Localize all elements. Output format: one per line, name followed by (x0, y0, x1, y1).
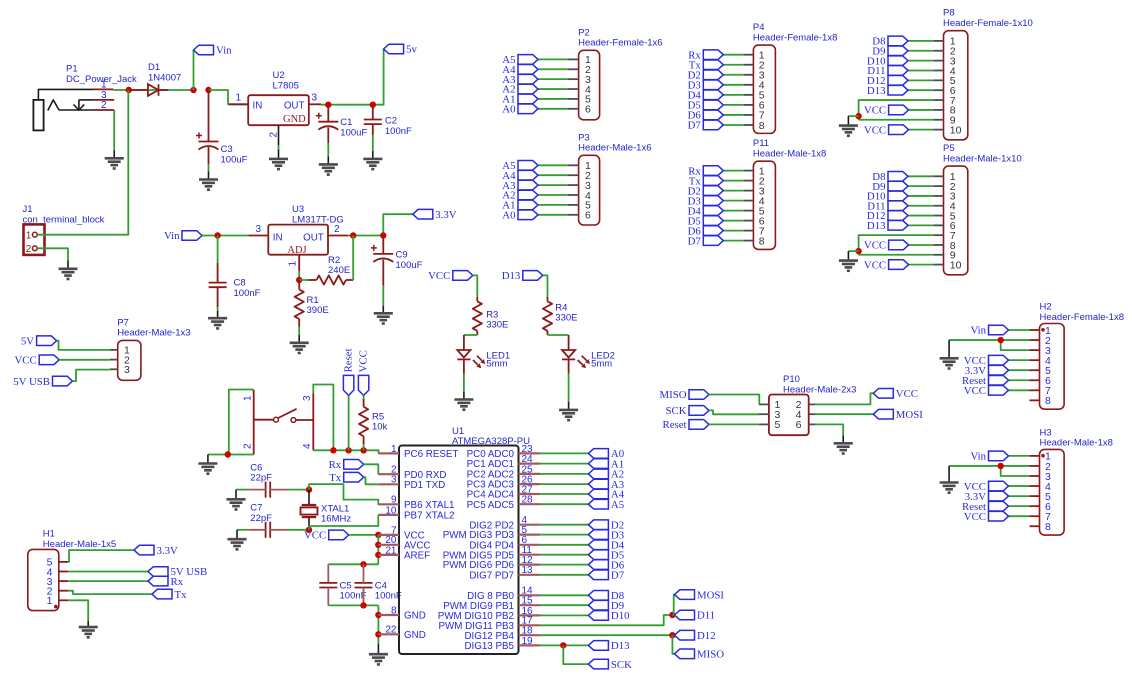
net flag D6 at U1 (588, 559, 624, 571)
ground at H1 (79, 627, 98, 637)
ground at H3 (940, 483, 959, 493)
pin U3.3 stub (249, 235, 269, 237)
svg-text:19: 19 (522, 636, 534, 647)
net flag D2 at P4 (688, 69, 724, 81)
ground under P1 (105, 158, 124, 168)
junction Vin / C8 (214, 232, 220, 238)
wire VCC to P5.8 (909, 244, 934, 246)
svg-text:Header-Female-1x8: Header-Female-1x8 (1040, 312, 1124, 323)
svg-text:10k: 10k (372, 422, 388, 433)
net flag VCC at P5.8 (864, 240, 909, 252)
wire C3 top (208, 90, 210, 142)
op-amp U2 L7805 regulator (235, 70, 320, 145)
pin U2.1 IN stub (229, 103, 248, 105)
svg-text:2: 2 (243, 443, 254, 449)
wire U1 to D8 (540, 594, 588, 596)
wire Reset to H3 (1009, 505, 1030, 507)
wire C1 bottom (327, 128, 329, 144)
junction VIN / J1 (126, 87, 132, 93)
svg-text:MISO: MISO (697, 649, 724, 661)
svg-text:D7: D7 (688, 235, 702, 247)
wire A3 to P3 (538, 184, 568, 186)
svg-text:1: 1 (26, 231, 32, 242)
net flag A0 at P2 (502, 104, 538, 116)
net flag D13 at LED2 (502, 270, 543, 282)
wire RESET rail (313, 450, 378, 453)
svg-text:AREF: AREF (404, 551, 430, 562)
net flag D10 at U1 (588, 610, 629, 622)
connector H1 Header-Male-1x5 (28, 529, 116, 611)
wire VCC to U1.7 (349, 534, 379, 536)
IC U1 ATMEGA328P-PU (399, 426, 530, 654)
net flag 3.3V at H1 (134, 545, 178, 557)
wire D13 to P5 (908, 224, 934, 226)
svg-text:U3: U3 (292, 204, 304, 215)
wire C9 bottom (382, 260, 384, 286)
svg-text:Header-Male-1x8: Header-Male-1x8 (753, 149, 826, 160)
svg-text:1: 1 (235, 93, 241, 104)
wire P10.6 to ground (815, 424, 843, 435)
net flag A2 at P2 (502, 84, 538, 96)
junction XTAL2 / C7 (306, 527, 312, 533)
pin C7 right stub (270, 529, 289, 531)
svg-text:SCK: SCK (665, 405, 686, 417)
capacitor C6 (265, 482, 267, 498)
net flag D12 at P8 (867, 75, 908, 87)
svg-text:L7805: L7805 (273, 81, 299, 92)
net flag Reset at P10 (663, 419, 710, 431)
junction ground tap (855, 113, 861, 119)
wire D4 to P4 (723, 94, 744, 96)
svg-text:Header-Male-1x3: Header-Male-1x3 (117, 328, 190, 339)
net flag VCC at P8.8 (864, 105, 909, 117)
net flag D13 at U1 (588, 640, 629, 652)
junction OUT / C9 (380, 232, 386, 238)
net flag Vin top (194, 45, 233, 57)
net flag D11 at P8 (867, 65, 908, 77)
svg-text:3: 3 (391, 475, 397, 486)
wire U1 to D2 (540, 524, 588, 526)
net flag VCC at H3 (964, 481, 1009, 493)
svg-text:Header-Female-1x10: Header-Female-1x10 (943, 18, 1033, 29)
net flag VCC at H3 (964, 511, 1009, 523)
svg-text:MOSI: MOSI (697, 589, 724, 601)
resistor R1 (295, 290, 304, 319)
wire A4 to P2 (538, 68, 568, 70)
net flag VCC at P5.10 (864, 259, 909, 271)
wire SW pin3 loop (313, 385, 333, 451)
wire H2.3 ground (1001, 340, 1030, 350)
capacitor C3 (199, 141, 219, 143)
svg-text:ADJ: ADJ (287, 245, 306, 256)
svg-text:390E: 390E (307, 305, 329, 316)
net flag Reset at H2 (962, 375, 1009, 387)
LED LED1 (457, 350, 510, 369)
pin U1.9 PB6 XTAL1 (378, 495, 454, 511)
svg-text:100uF: 100uF (396, 260, 423, 271)
switch SW1 reset pushbutton (243, 390, 314, 455)
wire 5V to P7.1 (57, 341, 110, 350)
net flag D6 at P11 (688, 225, 724, 237)
pin LED1 bottom stub (463, 359, 465, 373)
net flag Rx at P11 (688, 165, 723, 177)
wire Rx to P4 (723, 54, 744, 56)
ground under C1 (319, 164, 338, 174)
pin U1.26 PC3 ADC3 (467, 475, 540, 491)
svg-text:A5: A5 (611, 499, 624, 511)
wire GND rail (377, 605, 379, 643)
svg-text:1N4007: 1N4007 (148, 72, 181, 83)
wire D8 to P8 (908, 40, 934, 42)
pin U3.2 stub (328, 235, 348, 237)
wire C8 bottom (217, 287, 219, 307)
svg-text:10: 10 (950, 124, 962, 136)
wire Reset flag drop (348, 395, 350, 450)
ground at P8 (839, 126, 858, 136)
wire U1 to A4 (540, 493, 588, 495)
wire H1.1 to ground (68, 600, 88, 621)
net flag D12 at P5 (867, 210, 908, 222)
net flag D5 at P4 (688, 100, 724, 112)
resistor R2 (317, 275, 346, 284)
svg-text:1: 1 (288, 261, 299, 267)
wire A0 to P2 (538, 108, 568, 110)
wire Rx to PD0 (364, 464, 379, 474)
svg-text:A0: A0 (502, 210, 515, 222)
wire J1 pin1 to VIN (38, 90, 128, 235)
pin R3 bottom stub (476, 331, 478, 335)
wire D6 to P11 (723, 230, 744, 232)
net flag D7 at U1 (588, 570, 624, 582)
svg-text:MISO: MISO (660, 389, 687, 401)
wire pin9 ground (859, 119, 934, 121)
wire U1 to D10 (540, 614, 588, 616)
net flag 3.3V (413, 209, 457, 221)
net flag 5V USB at H1 (148, 566, 207, 578)
wire R3 to LED1 (464, 334, 477, 336)
svg-text:Vin: Vin (970, 325, 986, 337)
pin U1.17 PWM DIG11 PB3 (439, 616, 541, 632)
svg-text:10: 10 (385, 505, 397, 516)
wire D9 to P5 (908, 185, 934, 187)
wire U3 OUT to 3.3V (348, 214, 413, 235)
net flag 3.3V at H3 (965, 491, 1009, 503)
ground under C7 (228, 539, 247, 549)
net flag VCC at H2 (964, 355, 1009, 367)
wire Vin to H2.1 (1009, 329, 1030, 331)
junction ground H2 (998, 337, 1004, 343)
pin LED1 top stub (463, 335, 465, 350)
pin U1.6 DIG4 PD4 (469, 535, 540, 551)
wire R1 to ground (298, 327, 300, 336)
pin U1.19 DIG13 PB5 (464, 636, 540, 652)
net flag A3 at P2 (502, 74, 538, 86)
pin U1.7 VCC (378, 525, 424, 541)
wire D11 to P8 (908, 69, 934, 71)
wire A5 to P2 (538, 58, 568, 60)
net flag D9 at P5 (872, 181, 908, 193)
wire VCC to H2 (1009, 389, 1030, 391)
net flag D11 at U1 (675, 610, 716, 622)
connector H2 Header-Female-1x8 (1030, 302, 1124, 410)
wire C6 to ground (236, 489, 248, 491)
capacitor C8 (209, 282, 227, 284)
net flag A5 at U1 (588, 499, 624, 511)
svg-text:22pF: 22pF (250, 513, 272, 524)
svg-text:VCC: VCC (14, 355, 36, 367)
junction RESET / R5 (360, 447, 366, 453)
wire VCC to H3 (1009, 515, 1030, 517)
wire C1 top (327, 105, 329, 122)
net flag D13 at P8 (867, 85, 908, 97)
net flag Vin at H2 (970, 325, 1008, 337)
junction C4 bottom (360, 602, 366, 608)
wire D2 to P11 (723, 190, 744, 192)
net flag D9 at P8 (872, 45, 908, 57)
pin U3.1 ADJ stub (298, 255, 300, 271)
svg-text:U2: U2 (273, 70, 285, 81)
pin R4 top stub (547, 297, 549, 302)
pin R1 bottom stub (298, 319, 300, 327)
wire ground tap (848, 250, 858, 252)
connector P3 (568, 132, 652, 225)
svg-text:5: 5 (775, 419, 781, 431)
wire PB4 to D12 (540, 634, 672, 636)
svg-text:D13: D13 (502, 270, 521, 282)
svg-text:PC6 RESET: PC6 RESET (404, 449, 458, 460)
svg-text:IN: IN (253, 101, 263, 112)
wire D12 to MISO (672, 635, 674, 654)
net flag D3 at P4 (688, 80, 724, 92)
wire VCC to H2 (1009, 359, 1030, 361)
ground at P5 (839, 261, 858, 271)
net flag Tx at H1 (152, 589, 187, 601)
net flag MOSI at U1 (675, 589, 725, 601)
pin U1.16 PWM DIG10 PB2 (438, 606, 540, 622)
net flag D5 at U1 (588, 549, 624, 561)
wire ADJ (298, 271, 300, 280)
junction U1.8 GND (375, 612, 381, 618)
svg-text:VCC: VCC (864, 240, 886, 252)
wire U1 to D5 (540, 554, 588, 556)
net flag D11 at P5 (867, 200, 908, 212)
svg-text:VCC: VCC (864, 105, 886, 117)
net flag D7 at P11 (688, 235, 724, 247)
wire A2 to P3 (538, 194, 568, 196)
wire PB5 to D13 (540, 644, 588, 646)
net flag D7 at P4 (688, 120, 724, 132)
wire A3 to P2 (538, 78, 568, 80)
wire D7 to P4 (723, 124, 744, 126)
wire A4 to P3 (538, 174, 568, 176)
wire D10 to P8 (908, 60, 934, 62)
net flag D12 at U1 (675, 630, 716, 642)
svg-text:1: 1 (391, 444, 397, 455)
net flag Reset at switch (342, 348, 354, 395)
svg-text:100uF: 100uF (340, 128, 367, 139)
pin R2 right stub (346, 279, 353, 281)
pin U1.13 DIG7 PD7 (469, 565, 540, 581)
svg-text:A0: A0 (502, 104, 515, 116)
junction ADJ node (296, 277, 302, 283)
net flag VCC at R5 (357, 350, 369, 395)
svg-text:VCC: VCC (357, 350, 369, 372)
connector P8 (934, 8, 1033, 140)
svg-text:28: 28 (522, 495, 534, 506)
pin LED2 bottom stub (568, 359, 570, 373)
svg-text:DIG7 PD7: DIG7 PD7 (469, 570, 514, 581)
net flag A2 at P3 (502, 190, 538, 202)
connector P1 DC power jack (33, 64, 137, 131)
ground under C2 (363, 159, 382, 169)
junction VCC U1.21 (375, 552, 381, 558)
junction SW ground (225, 451, 231, 457)
wire VCC to R3 (473, 275, 478, 297)
pin R5 bottom stub (363, 436, 365, 444)
wire C9 top (382, 236, 384, 254)
net flag MOSI at P10 (873, 409, 923, 421)
pin LED2 top stub (568, 335, 570, 350)
pin U1.4 DIG2 PD2 (469, 515, 540, 531)
svg-text:Rx: Rx (329, 459, 342, 471)
wire D9 to P8 (908, 50, 934, 52)
svg-text:VCC: VCC (428, 270, 450, 282)
net flag 5v (384, 44, 418, 56)
svg-text:5mm: 5mm (486, 358, 507, 369)
net flag 3.3V at H2 (965, 365, 1009, 377)
svg-text:PB7 XTAL2: PB7 XTAL2 (404, 511, 454, 522)
svg-text:D10: D10 (611, 610, 630, 622)
svg-text:Tx: Tx (175, 589, 188, 601)
svg-text:5V: 5V (21, 335, 34, 347)
pin U1.21 AREF (378, 545, 430, 561)
svg-text:Reset: Reset (663, 419, 687, 431)
svg-text:8: 8 (1045, 521, 1051, 533)
pin U1.1 PC6 RESET (378, 444, 458, 460)
svg-text:D11: D11 (697, 610, 715, 622)
pin U1.23 PC0 ADC0 (467, 444, 540, 460)
wire VIN to U2 IN (209, 90, 249, 104)
connector P4 (744, 22, 838, 133)
pin U1.25 PC2 ADC2 (467, 464, 540, 480)
svg-text:100nF: 100nF (385, 126, 412, 137)
wire Vin to H3.1 (1009, 455, 1030, 457)
wire Tx to P4 (723, 64, 744, 66)
net flag Rx at H1 (148, 576, 184, 588)
capacitor C4 (355, 582, 373, 584)
net flag D5 at P11 (688, 215, 724, 227)
net flag A1 at P3 (502, 200, 538, 212)
wire XTAL1 to PB6 (309, 484, 378, 504)
svg-text:240E: 240E (328, 265, 350, 276)
net flag D8 at U1 (588, 590, 624, 602)
pin U1.11 PWM DIG5 PD5 (443, 545, 540, 561)
svg-text:6: 6 (796, 419, 802, 431)
junction D12 / MISO (669, 632, 675, 638)
connector P10 Header-Male-2x3 (759, 374, 857, 435)
svg-text:3: 3 (124, 364, 130, 376)
LED LED2 (562, 350, 615, 369)
svg-text:DIG13 PB5: DIG13 PB5 (464, 641, 514, 652)
net flag D10 at P5 (867, 191, 908, 203)
ground at P10 (834, 443, 853, 453)
wire U1 to D9 (540, 604, 588, 606)
svg-text:1: 1 (243, 395, 254, 401)
svg-text:Vin: Vin (216, 45, 232, 57)
net flag A4 at P3 (502, 170, 538, 182)
ground under LED2 (559, 410, 578, 420)
wire A1 to P3 (538, 204, 568, 206)
wire U2 GND to ground (278, 145, 280, 150)
junction VCC U1.20 (375, 542, 381, 548)
svg-text:6: 6 (585, 104, 591, 116)
wire D13 to P8 (908, 89, 934, 91)
wire VCC to R5 (363, 395, 365, 399)
svg-text:16MHz: 16MHz (321, 514, 351, 525)
wire ground tap (848, 115, 858, 117)
svg-text:MOSI: MOSI (896, 409, 923, 421)
svg-text:Header-Female-1x6: Header-Female-1x6 (578, 38, 662, 49)
wire pin7 ground loop (859, 235, 934, 255)
pin R2 left stub (309, 279, 317, 281)
net flag A1 at U1 (588, 458, 624, 470)
net flag D8 at P5 (872, 171, 908, 183)
net flag A1 at P2 (502, 94, 538, 106)
svg-text:D13: D13 (867, 85, 886, 97)
wire P10.2 to VCC (815, 393, 873, 404)
capacitor C9 (373, 253, 393, 255)
wire Reset to H2 (1009, 379, 1030, 381)
svg-text:1: 1 (47, 595, 53, 607)
wire SCK branch (563, 645, 588, 664)
svg-text:VCC: VCC (964, 511, 986, 523)
wire H3.2 ground (949, 465, 1029, 467)
net flag A5 at P2 (502, 54, 538, 66)
pin U1.2 PD0 RXD (378, 465, 446, 481)
junction ground tap (855, 248, 861, 254)
junction 5V / C2 (370, 102, 376, 108)
svg-text:10: 10 (950, 259, 962, 271)
net flag Rx at U1 (329, 459, 364, 471)
junction C4 top (360, 561, 366, 567)
svg-text:3: 3 (255, 224, 261, 235)
net flag D6 at P4 (688, 110, 724, 122)
net flag A2 at U1 (588, 469, 624, 481)
svg-text:2: 2 (26, 244, 32, 255)
pin C7 left stub (248, 529, 265, 531)
junction RESET / Reset flag (345, 447, 351, 453)
svg-text:D7: D7 (688, 120, 702, 132)
svg-text:330E: 330E (555, 313, 577, 324)
wire Tx to PD1 (364, 477, 379, 484)
pin U1.20 AVCC (378, 535, 430, 551)
wire VCC to H3 (1009, 485, 1030, 487)
svg-text:Reset: Reset (342, 348, 354, 372)
svg-text:22pF: 22pF (250, 473, 272, 484)
wire H3.3 ground (1001, 466, 1030, 476)
svg-text:Header-Female-1x8: Header-Female-1x8 (753, 32, 837, 43)
wire U1 to A0 (540, 452, 588, 454)
svg-text:VCC: VCC (864, 259, 886, 271)
svg-text:330E: 330E (486, 319, 508, 330)
net flag VCC at P10 (873, 388, 918, 400)
svg-text:Header-Male-1x10: Header-Male-1x10 (943, 153, 1022, 164)
wire Reset to P10.5 (709, 423, 759, 425)
svg-text:3.3V: 3.3V (157, 545, 178, 557)
net flag D2 at P11 (688, 185, 724, 197)
wire U1 to A2 (540, 473, 588, 475)
wire H1.3 to Rx (68, 580, 148, 582)
